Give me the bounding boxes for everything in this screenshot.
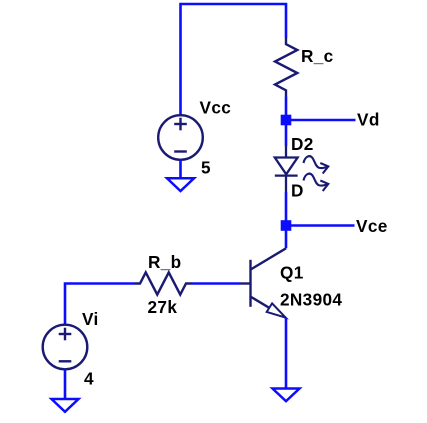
wire top rail from Vcc to R_c <box>181 4 287 115</box>
resistor R_c <box>275 38 297 97</box>
node Vce junction <box>281 220 292 231</box>
svg-text:Vd: Vd <box>357 109 380 129</box>
wire R_b to base <box>193 282 241 285</box>
wire Vcc to ground <box>179 160 182 179</box>
wire base net left segment <box>65 284 135 325</box>
svg-text:2N3904: 2N3904 <box>280 289 342 309</box>
LED emission arrow 2 <box>304 174 329 191</box>
ground (emitter) <box>273 389 300 402</box>
node Vd junction <box>281 115 292 126</box>
transistor Q1 <box>240 248 286 317</box>
wire Vi to ground <box>64 369 67 399</box>
svg-text:4: 4 <box>84 369 94 389</box>
svg-text:Q1: Q1 <box>280 262 304 282</box>
ground (Vcc) <box>167 178 194 191</box>
svg-text:Vce: Vce <box>356 216 388 236</box>
wire Vd stub <box>286 119 356 122</box>
svg-text:Vcc: Vcc <box>200 98 232 118</box>
wire Vce stub <box>286 224 355 227</box>
wire diode to collector node <box>285 192 288 248</box>
diode D2 (LED) <box>275 146 298 192</box>
ground (Vi) <box>52 399 79 412</box>
svg-text:5: 5 <box>201 158 211 178</box>
resistor R_b <box>135 272 193 294</box>
svg-text:R_b: R_b <box>148 252 182 272</box>
voltage source Vcc <box>158 115 203 160</box>
svg-text:27k: 27k <box>148 297 178 317</box>
wire R_c bottom to diode <box>285 97 288 147</box>
voltage source Vi <box>43 325 88 370</box>
svg-text:D: D <box>291 181 304 201</box>
LED emission arrow 1 <box>304 156 329 173</box>
svg-text:R_c: R_c <box>301 46 334 66</box>
svg-text:D2: D2 <box>291 134 314 154</box>
svg-text:Vi: Vi <box>82 309 99 329</box>
wire emitter to ground <box>285 318 288 389</box>
